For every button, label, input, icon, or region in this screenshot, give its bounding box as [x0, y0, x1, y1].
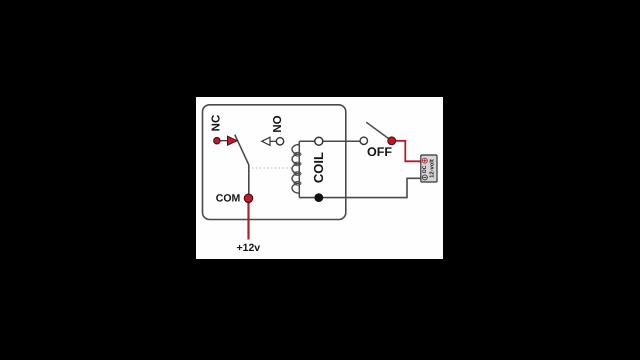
svg-text:+12v: +12v	[236, 242, 260, 254]
svg-text:12-volt: 12-volt	[429, 159, 436, 178]
NO open arrow	[262, 137, 270, 145]
wire: NC dot to arrow	[220, 140, 229, 142]
coil spring humps	[292, 145, 299, 194]
svg-text:COM: COM	[216, 192, 241, 204]
OFF switch pole circle	[360, 137, 367, 144]
wire: NO arrow to circle	[270, 140, 276, 142]
coil top open circle	[315, 137, 323, 145]
relay body outline	[203, 105, 346, 220]
red wire: switch to battery plus	[395, 141, 421, 162]
white schematic panel	[196, 97, 443, 259]
NC terminal red dot	[214, 138, 220, 144]
svg-text:NC: NC	[210, 115, 222, 132]
battery minus terminal	[422, 175, 427, 180]
COM red terminal dot	[244, 194, 252, 202]
wire: OFF switch blade (open)	[366, 122, 391, 141]
wire: coil top to OFF switch pole	[299, 140, 364, 142]
coil vertical line	[298, 141, 300, 197]
coil spring small loops	[294, 152, 301, 185]
battery body	[421, 155, 437, 182]
battery plus terminal	[422, 158, 427, 163]
NO open terminal circle	[276, 138, 283, 145]
svg-text:NO: NO	[272, 115, 284, 132]
NC red arrow	[228, 136, 238, 145]
red wire: COM to +12v	[247, 200, 249, 240]
coil bottom filled node	[314, 193, 323, 202]
svg-text:COIL: COIL	[311, 152, 326, 183]
wire: armature blade NC contact to pivot	[235, 135, 249, 165]
wire: coil bottom to battery minus	[299, 178, 421, 197]
OFF switch red terminal dot	[388, 137, 396, 145]
wire: pivot down to COM terminal	[248, 165, 250, 197]
svg-text:DC: DC	[422, 165, 428, 173]
svg-text:OFF: OFF	[367, 145, 392, 159]
dashed mechanical link to coil	[252, 167, 294, 169]
